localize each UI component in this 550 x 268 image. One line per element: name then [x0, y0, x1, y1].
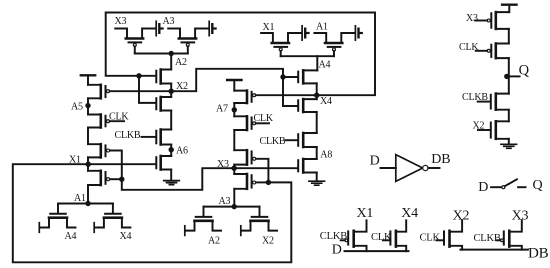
- transistor Tc (gate CLKB): [303, 133, 317, 147]
- wire switch input lead: [491, 186, 501, 188]
- transistor M4 (gate from X1): [161, 156, 172, 170]
- node X1 junction dot: [86, 162, 91, 167]
- label DB pass rail output: [528, 245, 549, 261]
- label D pass rail input: [332, 243, 342, 258]
- svg-text:CLKB: CLKB: [474, 233, 501, 244]
- supply T-bar of left stack: [81, 74, 95, 76]
- switch pivot circle: [502, 186, 505, 189]
- label X4 node: [320, 96, 332, 107]
- svg-text:A2: A2: [175, 57, 187, 68]
- supply T-bar of right column: [502, 3, 516, 5]
- node A2 junction dot: [169, 51, 174, 56]
- svg-text:X1: X1: [263, 22, 275, 33]
- transistor T1p (gate to X4): [234, 91, 247, 103]
- wire left stack rail: [87, 75, 89, 203]
- pass transistor gated by CLK: [443, 231, 445, 244]
- wire T4p gate lead: [256, 181, 269, 183]
- wire feedback from node X3 to first latch gates: [110, 151, 235, 190]
- node A7 junction dot: [232, 107, 237, 112]
- wire X2 gate lead: [478, 129, 490, 131]
- wire inverter output lead: [428, 167, 439, 169]
- label CLK: [109, 111, 129, 122]
- transistor T1 (gate to X2): [88, 85, 101, 99]
- label X3 input: [466, 13, 478, 24]
- node X2 junction dot: [169, 89, 174, 94]
- label CLKB input: [462, 92, 488, 103]
- wire D rail: [345, 250, 409, 252]
- svg-text:A2: A2: [208, 236, 220, 247]
- wire rail A2 to M1: [170, 54, 172, 70]
- label X2 input: [473, 121, 485, 132]
- wire second latch left rail: [233, 80, 235, 207]
- wire X3 gate lead: [475, 20, 487, 22]
- wire CLKB gate lead of Tc: [286, 139, 298, 141]
- transistor Ta (gate from X2 feedback): [303, 70, 317, 83]
- label X2 pass: [453, 208, 470, 223]
- label X3: [217, 159, 229, 170]
- svg-text:CLK: CLK: [459, 42, 479, 53]
- transistor Sclk (gate CLK): [496, 44, 509, 59]
- svg-text:X2: X2: [473, 121, 485, 132]
- transistor Sx2 (gate X2): [496, 121, 509, 139]
- svg-text:D: D: [332, 243, 342, 258]
- node X4 junction dot: [314, 93, 319, 98]
- label A6: [176, 146, 188, 157]
- transistor A2 (NMOS): [203, 207, 205, 216]
- label CLKB pass2: [474, 233, 501, 244]
- wire T1p gate to node X4: [256, 94, 317, 96]
- supply symbol at P-X3top: [155, 21, 157, 35]
- svg-text:A8: A8: [320, 149, 332, 160]
- node A5 junction dot: [85, 103, 90, 108]
- wire feedback from node X2 to second latch gates: [171, 69, 283, 91]
- wire node A1 to bottom pair gates: [58, 203, 113, 205]
- svg-text:X4: X4: [401, 206, 418, 221]
- transistor Sclkb (gate CLKB): [496, 94, 509, 110]
- svg-text:CLK: CLK: [109, 111, 129, 122]
- wire node X3 to Td gate: [234, 167, 297, 169]
- svg-text:DB: DB: [431, 152, 450, 167]
- label X3: [115, 16, 127, 27]
- inverter output bubble: [423, 165, 428, 170]
- wire joining X3/A3 gates to node A2: [135, 53, 188, 55]
- wire feedback loop from node X1 around bottom (box): [13, 164, 292, 262]
- label CLK input: [459, 42, 479, 53]
- transistor Tb (gate from X2 feedback): [303, 99, 317, 112]
- label CLKB pass1: [320, 231, 347, 242]
- supply symbol at P-A3top: [208, 21, 210, 35]
- wire switch output dash: [518, 186, 525, 188]
- supply symbol at P-A1top: [354, 26, 356, 40]
- ground under second latch: [309, 181, 325, 185]
- label A3: [219, 196, 231, 207]
- svg-text:X3: X3: [512, 208, 529, 223]
- transistor Td (gate from X3): [303, 159, 317, 173]
- node A3 junction dot: [232, 204, 237, 209]
- transistor T3p (gate from X1 feedback): [234, 150, 247, 164]
- svg-text:DB: DB: [528, 245, 549, 261]
- wire CLK gate lead: [476, 50, 487, 52]
- label A5: [71, 102, 83, 113]
- wire DB rail: [460, 249, 528, 251]
- svg-text:CLKB: CLKB: [260, 136, 286, 147]
- label A2: [208, 236, 220, 247]
- svg-text:Q: Q: [519, 62, 530, 78]
- transistor X4 (NMOS): [112, 204, 114, 213]
- svg-text:X4: X4: [320, 96, 332, 107]
- label A8: [320, 149, 332, 160]
- pass transistor gated by CLK: [389, 231, 391, 244]
- transistor T2p (gate CLK): [234, 116, 247, 130]
- svg-text:CLK: CLK: [420, 232, 441, 243]
- transistor P-X1top (PMOS, label X1): [261, 33, 301, 42]
- wire node A3 to bottom pair gates: [204, 206, 260, 208]
- node X3 junction dot: [231, 166, 236, 171]
- label Q switch output: [533, 178, 543, 193]
- transistor M1 (gate from X4 feedback): [161, 70, 172, 84]
- svg-text:A1: A1: [74, 193, 86, 204]
- wire rail M1 to X2: [170, 84, 172, 98]
- transistor P-A1top (PMOS, label A1): [314, 33, 354, 42]
- node Q junction dot: [504, 74, 509, 79]
- pass transistor gated by CLKB: [347, 231, 349, 244]
- label DB inverter output: [431, 152, 450, 167]
- label A2: [175, 57, 187, 68]
- label CLK pass1: [371, 232, 392, 243]
- svg-text:Q: Q: [533, 178, 543, 193]
- svg-text:A5: A5: [71, 102, 83, 113]
- svg-text:X1: X1: [357, 206, 374, 221]
- label A1: [316, 21, 328, 32]
- svg-text:A3: A3: [163, 16, 175, 27]
- svg-text:X4: X4: [120, 231, 132, 242]
- wire joining X1/A1 gates to node A4: [281, 55, 334, 57]
- wire X4-feedback down to M2 gate: [139, 76, 156, 103]
- label X4 pass: [401, 206, 418, 221]
- ground under right column: [501, 144, 517, 148]
- node X4-feedback junction dot: [136, 73, 141, 78]
- transistor X2 (NMOS): [259, 207, 261, 216]
- label X2: [176, 81, 188, 92]
- wire rail M2 to M3: [170, 111, 172, 130]
- wire node X1 to M4 gate: [88, 163, 155, 165]
- wire CLK stub of T2p: [256, 122, 269, 124]
- svg-text:CLKB: CLKB: [462, 92, 488, 103]
- svg-text:CLK: CLK: [254, 113, 274, 124]
- label CLK second latch: [254, 113, 274, 124]
- wire rail M4 to ground: [170, 170, 172, 181]
- label Q: [519, 62, 530, 78]
- node T4-gate junction dot: [119, 177, 124, 182]
- transistor P-X3top (PMOS, label X3): [115, 29, 155, 38]
- svg-text:X3: X3: [466, 13, 478, 24]
- svg-text:A7: A7: [216, 104, 228, 115]
- wire Q output stub: [507, 75, 520, 77]
- svg-text:CLK: CLK: [371, 232, 392, 243]
- transistor M2 (gate from X4 feedback): [161, 97, 172, 111]
- label A7: [216, 104, 228, 115]
- svg-text:X3: X3: [115, 16, 127, 27]
- wire node A4 down to latch2 rail: [316, 56, 318, 70]
- label CLKB: [115, 130, 141, 141]
- node X2-feedback junction dot: [280, 74, 285, 79]
- wire T4 gate lead: [110, 178, 122, 180]
- label X1 pass: [357, 206, 374, 221]
- wire X2-feedback down to Tb gate: [283, 77, 297, 106]
- svg-text:X2: X2: [176, 81, 188, 92]
- label A4: [319, 60, 331, 71]
- svg-text:A4: A4: [65, 231, 77, 242]
- wire second latch right rail: [316, 70, 319, 181]
- transistor A4 (NMOS): [57, 204, 59, 213]
- switch arm: [505, 179, 517, 186]
- svg-text:CLKB: CLKB: [115, 130, 141, 141]
- label X1: [69, 154, 81, 165]
- svg-text:A6: A6: [176, 146, 188, 157]
- label X4: [120, 231, 132, 242]
- wire CLKB gate lead of M3: [142, 136, 156, 138]
- transistor T4p (gate from X1 feedback): [234, 174, 247, 189]
- transistor T4 (gate from X3 feedback): [88, 171, 101, 185]
- label A4: [65, 231, 77, 242]
- wire X4-feedback to M1 gate: [139, 75, 156, 77]
- transistor T3 (gate from X3 feedback): [88, 144, 101, 157]
- wire feedback loop from node X4 around top (box): [106, 13, 375, 96]
- wire rail M3 to M4: [170, 145, 172, 157]
- wire inverter input lead: [381, 167, 396, 169]
- pass transistor gated by CLKB: [503, 231, 505, 244]
- svg-text:A3: A3: [219, 196, 231, 207]
- supply T-bar of second latch left column: [227, 79, 241, 81]
- svg-text:D: D: [370, 154, 380, 169]
- svg-text:A1: A1: [316, 21, 328, 32]
- svg-text:X2: X2: [262, 236, 274, 247]
- wire CLKB gate lead: [478, 101, 490, 103]
- svg-text:A4: A4: [319, 60, 331, 71]
- transistor M3 (gate CLKB): [161, 130, 172, 145]
- label X3 pass: [512, 208, 529, 223]
- wire right column rail: [508, 5, 511, 144]
- svg-text:X3: X3: [217, 159, 229, 170]
- label A3: [163, 16, 175, 27]
- label D inverter input: [370, 154, 380, 169]
- node A1 junction dot: [85, 201, 90, 206]
- label X2: [262, 236, 274, 247]
- transistor P-A3top (PMOS, label A3): [168, 29, 208, 38]
- wire X2-feedback to Ta gate: [283, 76, 297, 78]
- transistor Sx3 (gate X3): [496, 12, 509, 29]
- label CLKB second latch: [260, 136, 286, 147]
- node X1-feedback junction dot: [266, 180, 271, 185]
- svg-text:D: D: [478, 180, 488, 195]
- svg-text:X1: X1: [69, 154, 81, 165]
- wire T1 gate to node X2: [110, 90, 172, 92]
- label A1: [74, 193, 86, 204]
- wire CLK stub of T2: [110, 120, 124, 122]
- transistor T2 (gate CLK): [88, 115, 101, 128]
- svg-text:X2: X2: [453, 208, 470, 223]
- label D switch input: [478, 180, 488, 195]
- node A6 junction dot: [169, 147, 174, 152]
- label CLK pass2: [420, 232, 441, 243]
- wire X1-feedback up to T3p gate: [256, 159, 269, 183]
- label X1: [263, 22, 275, 33]
- supply symbol at P-X1top: [301, 26, 303, 40]
- inverter U1 triangle: [396, 155, 423, 182]
- ground under first latch: [164, 181, 180, 185]
